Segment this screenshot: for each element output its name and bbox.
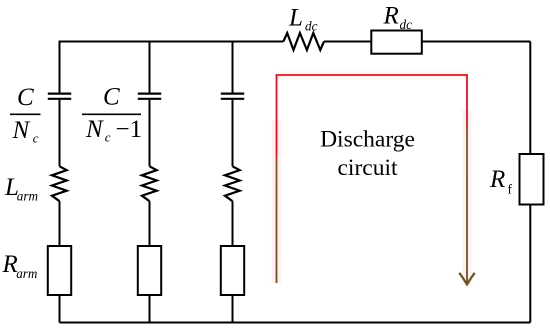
svg-text:N: N [12,117,31,144]
svg-text:R: R [489,166,505,193]
svg-text:dc: dc [305,19,318,34]
arrowhead [459,273,474,285]
capacitor C/(Nc-1) [138,94,161,99]
branch 1 wire bottom [59,295,61,323]
branch 1 wire lower [59,201,61,246]
branch 2 wire mid [149,100,151,167]
branch 2 wire bottom [149,295,151,323]
capacitor branch 3 [221,94,244,99]
label Ldc [288,5,318,34]
inductor Larm branch 2 [142,166,157,201]
label C over Nc [10,84,41,146]
wire right lower [529,205,531,323]
inductor Larm branch 3 [225,166,240,201]
label Rdc [383,3,413,33]
svg-text:c: c [33,131,39,146]
svg-text:N: N [85,116,104,143]
svg-text:arm: arm [16,266,37,281]
svg-text:f: f [508,182,513,197]
discharge path top [276,74,468,76]
discharge path left arrow [276,75,278,283]
inductor Larm branch 1 [52,166,67,201]
branch 3 wire mid [232,100,234,167]
label Rf [489,166,513,197]
wire right vertical [529,42,531,155]
label C over Nc-1 [82,84,142,145]
resistor Rarm branch 3 [221,246,244,295]
branch 2 wire upper [149,41,151,93]
label Discharge circuit [320,127,415,182]
label Larm [4,174,38,204]
svg-text:c: c [105,130,111,145]
svg-text:L: L [288,5,303,32]
svg-text:Discharge: Discharge [320,127,415,153]
svg-text:C: C [103,84,120,111]
svg-text:circuit: circuit [337,155,397,181]
resistor Rarm branch 2 [138,246,161,295]
branch 3 wire bottom [232,295,234,323]
discharge-path glow [277,75,468,285]
svg-text:R: R [383,3,399,30]
wire bottom bus [60,322,531,324]
resistor Rarm branch 1 [48,246,71,295]
branch 3 wire upper [232,41,234,93]
branch 3 wire lower [232,201,234,246]
branch 1 wire mid [59,100,61,167]
svg-text:−1: −1 [116,116,143,143]
resistor Rf [520,154,544,205]
svg-text:arm: arm [17,189,38,204]
label Rarm [2,251,38,281]
discharge path right arrow [466,75,468,284]
capacitor C/Nc [48,94,71,99]
svg-text:C: C [17,84,34,111]
branch 1 wire upper [59,41,61,93]
branch 2 wire lower [149,201,151,246]
svg-text:dc: dc [400,17,413,32]
resistor Rdc [371,31,422,54]
wire top bus [60,41,531,43]
inductor Ldc [283,33,324,50]
